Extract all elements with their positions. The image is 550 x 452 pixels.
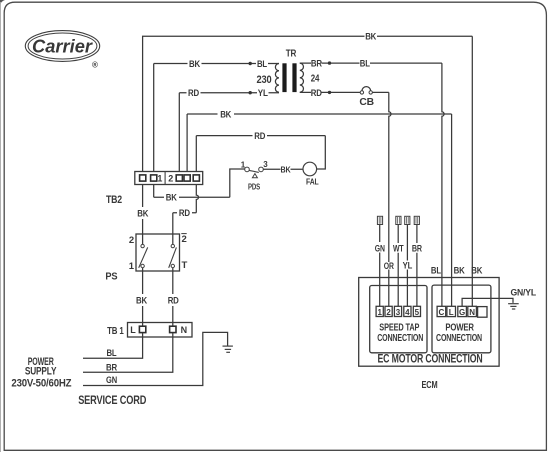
svg-text:GN/YL: GN/YL: [510, 288, 536, 299]
svg-text:TB 1: TB 1: [107, 325, 124, 337]
svg-text:RD: RD: [188, 88, 199, 99]
speed tap pin 4: [404, 306, 411, 316]
transformer TR core bars: [282, 63, 286, 92]
svg-text:1: 1: [377, 308, 382, 317]
power switch PS: [129, 234, 188, 273]
svg-text:BR: BR: [412, 243, 422, 254]
power pin N: [468, 306, 477, 316]
lamp FAL: [303, 162, 319, 186]
svg-text:5: 5: [415, 308, 420, 317]
svg-text:RD: RD: [254, 131, 265, 142]
svg-text:3: 3: [396, 308, 401, 317]
splice node BL primary: [249, 62, 252, 65]
wire BK TB2 sq4 to EC power L: [187, 114, 452, 306]
wire BK PS to TB1 L: [142, 268, 144, 326]
svg-text:BK: BK: [471, 266, 482, 277]
wire BR/BL transformer secondary top to EC power C: [300, 63, 444, 306]
power pin C: [437, 306, 446, 316]
power pin L: [447, 306, 456, 316]
wire GN speed tap pin1 to spade connector: [379, 225, 381, 307]
svg-text:TB2: TB2: [106, 194, 122, 206]
speed tap pin 2: [385, 306, 392, 316]
transformer TR primary coil: [275, 64, 279, 93]
svg-text:N: N: [469, 308, 475, 317]
splice node BL secondary: [328, 61, 331, 64]
svg-text:GN: GN: [106, 375, 117, 386]
svg-text:BL: BL: [360, 59, 370, 70]
ground symbol near TB1: [223, 346, 233, 352]
svg-text:EC MOTOR CONNECTION: EC MOTOR CONNECTION: [378, 354, 483, 366]
svg-text:BK: BK: [365, 32, 376, 43]
speed tap connection box: [370, 286, 427, 353]
splice node YL primary: [249, 91, 252, 94]
wire BK TB2 sq2 to transformer BL: [154, 64, 279, 172]
pressure switch PDS: [241, 160, 269, 191]
svg-text:BR: BR: [106, 362, 117, 373]
wire BK top: TB2 pin sq1 up and across to EC power N: [143, 36, 473, 306]
svg-text:RD: RD: [168, 295, 179, 306]
ground symbol GN/YL: [508, 304, 519, 309]
svg-text:BK: BK: [281, 164, 292, 174]
svg-text:Carrier: Carrier: [32, 37, 93, 57]
wire BK TB2 sq2 down to PDS pin 1: [154, 169, 245, 197]
speed tap pin 1: [376, 306, 383, 316]
svg-text:BK: BK: [220, 109, 231, 120]
wire YL speed tap pin4 to spade connector: [406, 225, 408, 307]
svg-text:230V-50/60HZ: 230V-50/60HZ: [11, 377, 71, 389]
terminal block TB1: [128, 323, 193, 338]
wire BR speed tap pin5 to spade connector: [416, 225, 418, 307]
svg-text:CONNECTION: CONNECTION: [377, 332, 423, 344]
svg-text:BK: BK: [454, 266, 465, 277]
terminal block TB2: [135, 172, 203, 185]
svg-text:SERVICE CORD: SERVICE CORD: [78, 395, 146, 407]
speed tap pin 5: [413, 306, 420, 316]
svg-text:1: 1: [129, 261, 135, 272]
svg-text:PS: PS: [105, 270, 117, 282]
wire OR: CB output down to speed tap pin 2: [372, 92, 391, 306]
wire RD PS to TB1 N: [172, 268, 174, 326]
speed tap pin 3: [394, 306, 401, 316]
svg-text:BK: BK: [136, 295, 147, 306]
svg-text:24: 24: [311, 74, 320, 85]
splice node RD secondary: [328, 91, 331, 94]
svg-text:RD: RD: [179, 208, 190, 219]
spade connector BR: [414, 216, 419, 224]
transformer TR secondary coil: [300, 63, 304, 92]
spade connector WT: [396, 216, 401, 224]
svg-text:BK: BK: [166, 193, 177, 204]
svg-text:BL: BL: [107, 348, 117, 359]
svg-text:CONNECTION: CONNECTION: [436, 332, 482, 344]
wire BR supply to TB1 N: [83, 333, 173, 372]
power connection box: [432, 285, 491, 353]
svg-text:BL: BL: [257, 59, 267, 70]
svg-text:FAL: FAL: [306, 177, 319, 187]
wire BK PDS to FAL: [263, 168, 303, 170]
svg-text:C: C: [439, 308, 445, 317]
svg-text:BK: BK: [137, 208, 148, 219]
spade connector GN: [377, 216, 382, 224]
svg-text:®: ®: [92, 61, 98, 70]
circuit breaker CB: [359, 87, 374, 109]
svg-text:BL: BL: [431, 266, 441, 277]
svg-text:PDS: PDS: [248, 182, 261, 191]
power pin empty: [478, 307, 487, 318]
wire BK TB2 sq1 down to PS left switch: [142, 185, 144, 245]
svg-text:TR: TR: [286, 48, 297, 59]
svg-text:ECM: ECM: [422, 379, 438, 391]
svg-text:BR: BR: [311, 59, 322, 70]
svg-text:N: N: [181, 325, 187, 335]
svg-text:L: L: [130, 325, 136, 335]
wire BL supply to TB1 L: [83, 333, 143, 358]
svg-text:230: 230: [257, 74, 272, 86]
svg-text:T: T: [181, 260, 187, 271]
svg-text:2: 2: [181, 234, 186, 245]
power pin G: [458, 306, 467, 316]
svg-text:2: 2: [168, 174, 173, 184]
wire GN supply to chassis ground: [83, 332, 228, 385]
svg-text:BK: BK: [189, 59, 200, 70]
svg-text:L: L: [449, 308, 454, 317]
svg-text:GN: GN: [375, 243, 385, 254]
wire RD TB2 sq5 to FAL: [196, 136, 325, 172]
spade connector YL: [405, 216, 410, 224]
svg-text:WT: WT: [393, 243, 404, 254]
svg-text:YL: YL: [258, 88, 268, 99]
svg-text:CB: CB: [359, 97, 374, 108]
svg-text:RD: RD: [311, 88, 322, 99]
wire RD TB2 sq5 down to PS right switch: [173, 185, 199, 245]
wire GN/YL power pin G to ground: [462, 298, 513, 306]
Carrier logo: [25, 31, 99, 70]
svg-text:G: G: [459, 308, 465, 317]
svg-text:YL: YL: [403, 261, 413, 272]
svg-text:OR: OR: [384, 261, 394, 272]
wire WT speed tap pin3 to spade connector: [397, 225, 399, 307]
svg-text:3: 3: [263, 160, 268, 169]
wire RD transformer secondary bottom to CB: [300, 91, 360, 93]
wire RD TB2 sq3 to transformer YL: [179, 93, 279, 172]
svg-text:4: 4: [405, 308, 410, 317]
svg-text:2: 2: [129, 235, 134, 246]
svg-text:1: 1: [157, 174, 162, 184]
svg-text:2: 2: [386, 308, 391, 317]
EC motor connection outer box: [359, 278, 499, 367]
svg-text:SUPPLY: SUPPLY: [25, 365, 57, 377]
